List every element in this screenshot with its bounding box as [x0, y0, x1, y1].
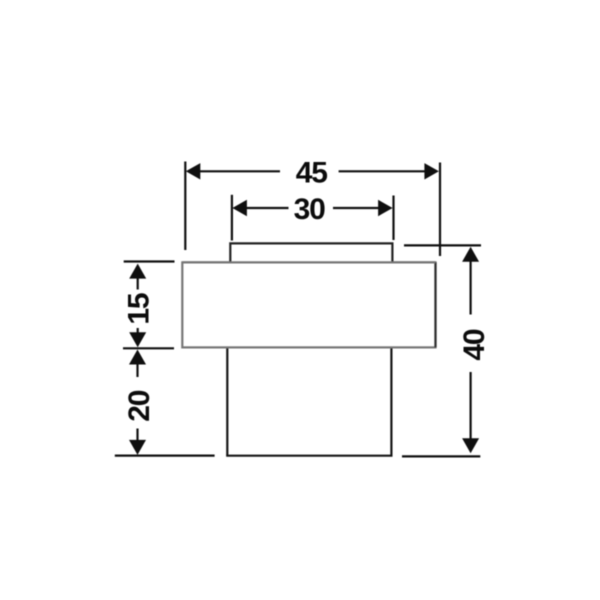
extension line bottom for dim 40 — [402, 455, 480, 457]
extension line top for dim 40 — [404, 244, 481, 246]
extension line right for dim 45 — [439, 163, 441, 257]
arrowhead 30 right — [378, 200, 393, 216]
svg-text:15: 15 — [123, 293, 156, 324]
dimension line 45 left segment — [197, 170, 280, 172]
arrowhead 45 left — [186, 163, 201, 179]
svg-text:20: 20 — [123, 390, 156, 421]
dimension line 40 upper segment — [470, 261, 472, 315]
arrowhead 45 right — [424, 163, 439, 179]
dimension line 30 left segment — [244, 207, 289, 209]
top plate outline (no bottom edge, sits on body) — [230, 243, 392, 262]
extension line left for dim 30 — [231, 195, 233, 241]
arrowhead 15 up — [129, 264, 146, 279]
base cylinder bottom edge — [226, 455, 392, 457]
extension line right for dim 30 — [392, 196, 394, 241]
main body right edge (darker) — [434, 262, 436, 347]
dimension line 15 lower segment — [137, 328, 139, 334]
dimension line 40 lower segment — [470, 372, 472, 440]
extension line bottom for dim 20 — [115, 455, 215, 457]
extension line left for dim 45 — [184, 162, 186, 251]
arrowhead 20 down — [129, 440, 146, 455]
arrowhead 30 left — [232, 200, 247, 216]
body top edge over plate junction — [182, 261, 435, 263]
arrowhead 20 up — [129, 350, 146, 365]
base cylinder right edge — [390, 349, 392, 456]
dimension line 30 right segment — [333, 207, 380, 209]
base cylinder left edge — [226, 349, 228, 456]
dimension line 15 upper segment — [137, 277, 139, 290]
svg-text:45: 45 — [296, 156, 327, 189]
svg-text:40: 40 — [458, 329, 491, 360]
main body outline (gray rectangle) — [182, 262, 435, 347]
dimension line 20 upper segment — [136, 363, 138, 377]
arrowhead 40 down — [462, 438, 479, 453]
extension line top for dim 15 — [124, 260, 175, 262]
dimension line 45 right segment — [339, 170, 426, 172]
dimension line 20 lower segment — [136, 429, 138, 443]
extension line shared between dim 15 and dim 20 — [123, 347, 174, 349]
arrowhead 15 down — [129, 332, 146, 347]
arrowhead 40 up — [462, 247, 479, 262]
svg-text:30: 30 — [294, 193, 325, 226]
